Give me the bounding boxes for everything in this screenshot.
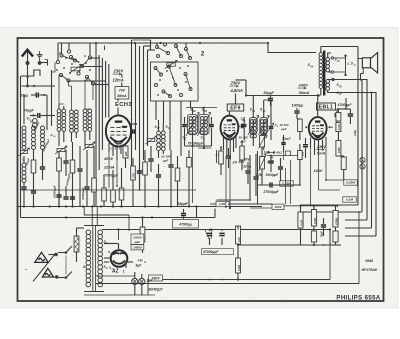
cap 27000	[258, 151, 273, 204]
wire coil cluster risers	[59, 80, 93, 110]
svg-text:110µ: 110µ	[353, 130, 357, 136]
svg-text:230V: 230V	[316, 145, 326, 149]
svg-text:59µµF: 59µµF	[178, 202, 189, 206]
wire chassis bus	[18, 205, 263, 207]
EBL1 right resistor c	[336, 141, 341, 157]
screen stub	[216, 150, 218, 163]
left capacitor C4	[40, 158, 45, 180]
osc coil pair S11 S12	[83, 109, 92, 146]
svg-text:P.U: P.U	[277, 151, 283, 155]
padding trimmer 2	[83, 142, 95, 150]
aerial coil S2	[32, 126, 36, 150]
capacitor C10	[84, 150, 89, 207]
output transformer secondary S25	[326, 53, 331, 72]
wire switch1 to bundle	[69, 58, 109, 85]
svg-text:1µF: 1µF	[264, 151, 271, 155]
osc trimmer 3	[145, 136, 157, 144]
capacitor 70pF	[24, 109, 55, 119]
trimmer on switch 2	[165, 60, 178, 68]
capacitor 47000 mid-left	[181, 209, 186, 219]
IF transformer can S20	[197, 108, 210, 148]
tube label AZ1	[112, 269, 125, 275]
wire cluster top	[284, 205, 338, 207]
label 4700uuF top	[337, 103, 353, 107]
wire avc mid	[267, 151, 302, 204]
volume pot 0.5M	[259, 147, 275, 185]
cap 50uuF	[281, 135, 285, 152]
EBL1 grid resistor upper	[297, 119, 302, 140]
svg-text:10000µµF: 10000µµF	[53, 185, 57, 198]
pickup jack P.U.	[360, 157, 365, 169]
label 47000uuF bottom	[202, 249, 234, 255]
wire ECH3 anode feed	[118, 74, 122, 116]
label 25K 3300uuF	[255, 173, 279, 177]
EF9 pins	[224, 136, 237, 160]
label +Ub	[138, 259, 147, 264]
loudspeaker LS	[362, 53, 377, 73]
resistor R27	[131, 158, 136, 207]
aerial coil S1	[19, 126, 30, 156]
svg-text:L S: L S	[348, 62, 354, 66]
svg-text:I: I	[104, 45, 106, 52]
resistor cluster R20	[298, 206, 303, 245]
band switch SK2 wafer contacts	[154, 65, 192, 98]
svg-text:27K: 27K	[132, 172, 136, 179]
svg-text:25K: 25K	[255, 173, 263, 177]
capacitor C12 pair	[63, 186, 75, 199]
svg-text:47000: 47000	[335, 217, 338, 226]
svg-text:0,1M: 0,1M	[346, 198, 353, 202]
section marker 1	[104, 45, 106, 52]
svg-text:2: 2	[201, 51, 205, 58]
resistor R fed2	[236, 258, 241, 280]
resistor far-left bottom	[140, 218, 145, 254]
IF2 tuning cap left	[241, 117, 247, 141]
cap 1uF	[269, 155, 274, 172]
capacitor C9	[77, 146, 82, 207]
output transformer primary S24	[319, 47, 323, 96]
wire top bus to transformer	[267, 42, 316, 53]
scan speckle	[20, 40, 377, 300]
phase triangle 1	[35, 252, 48, 262]
IF1 tuning cap C5	[182, 117, 187, 146]
svg-text:4,6mA: 4,6mA	[230, 88, 243, 93]
resistor R5	[57, 152, 62, 207]
label 1940	[365, 259, 374, 263]
mains transformer core	[84, 226, 104, 292]
winding labels S21 S22	[250, 108, 266, 114]
svg-text:PHILIPS 655A: PHILIPS 655A	[336, 295, 380, 301]
padding trimmer 1	[55, 146, 67, 154]
band switch SK1 wafer contacts	[56, 50, 95, 85]
wire transformer bottom bus	[84, 276, 155, 295]
resistor R22	[333, 206, 338, 245]
boxed 4500	[131, 245, 144, 250]
IF transformer can S19	[186, 107, 217, 146]
label 1uF 50	[264, 151, 274, 160]
IF transformer can S21	[248, 108, 259, 146]
osc coil pair S7 S8	[57, 104, 66, 146]
boxed 0.25M right	[344, 180, 358, 185]
boxed 180V	[149, 275, 163, 281]
label s13	[51, 133, 57, 138]
capacitor 33pF	[21, 93, 48, 98]
band switch SK2 wafer box	[151, 62, 199, 101]
wire avc vert	[283, 152, 285, 160]
boxed 0.25M	[280, 181, 294, 186]
label 110u vertical	[353, 130, 357, 136]
svg-text:1K2: 1K2	[237, 237, 241, 242]
wire HT rail	[102, 228, 331, 230]
wire mid long y190	[21, 189, 197, 191]
wire det bus	[210, 155, 251, 204]
svg-text:1000µµ: 1000µµ	[292, 104, 304, 108]
svg-text:EF9: EF9	[230, 105, 240, 111]
cap 1000uu	[294, 108, 299, 119]
left resistor R1	[31, 150, 36, 185]
output transformer core	[323, 51, 325, 96]
boxed 32000uuF	[131, 234, 144, 245]
rectifier AZ1	[111, 250, 128, 267]
svg-text:47000µµF: 47000µµF	[202, 250, 219, 254]
tube label EF9	[227, 104, 244, 111]
resistor R fed	[236, 226, 241, 258]
svg-text:0,1M: 0,1M	[338, 124, 341, 130]
IF transformer can S22	[258, 108, 269, 150]
label S3 coil	[27, 117, 38, 133]
wire HT drop right	[330, 230, 341, 246]
label 47000 slant	[65, 173, 71, 187]
resistor R21	[311, 206, 316, 226]
svg-text:75µF: 75µF	[320, 231, 324, 238]
EF9 cathode resistor	[219, 146, 224, 175]
winding labels S19 S20	[190, 108, 208, 114]
wire bundle left of ECH3	[96, 43, 109, 207]
svg-text:70µµF: 70µµF	[24, 109, 35, 113]
wire switch1 risers	[58, 43, 90, 61]
speaker lower wire	[361, 68, 364, 74]
mains switch	[58, 246, 72, 279]
cap 4700-2	[348, 109, 353, 124]
capacitor C30	[320, 218, 327, 238]
svg-text:4µF: 4µF	[135, 263, 143, 267]
cap 4700-1	[334, 109, 339, 124]
winding label S24	[308, 63, 314, 68]
wire det to right	[229, 204, 272, 208]
tube label ECH3	[115, 102, 132, 108]
label 80V 1mA	[243, 158, 251, 169]
svg-text:2: 2	[114, 147, 117, 151]
svg-text:2V: 2V	[232, 161, 238, 165]
svg-text:ECH3: ECH3	[115, 102, 132, 108]
left caps to bus	[21, 183, 36, 207]
svg-text:1: 1	[123, 270, 125, 274]
AVC caps	[245, 154, 258, 196]
label s14	[30, 120, 36, 125]
svg-text:14500: 14500	[133, 245, 142, 249]
output transformer secondary S26	[326, 80, 338, 93]
EBL1 pins	[311, 137, 327, 155]
wire output loop	[321, 47, 363, 59]
svg-text:47000µµ: 47000µµ	[178, 223, 192, 227]
earth terminal stub	[40, 60, 48, 66]
label 230V 12mA	[113, 69, 125, 83]
boxed 15M	[216, 201, 229, 206]
wire EF9 to EBL1 top	[245, 80, 247, 97]
label 163V	[314, 169, 323, 173]
cap 3300	[278, 158, 283, 185]
wire switch2 down-leads	[156, 101, 191, 156]
IF1 lower resistor	[187, 150, 192, 207]
label 1000uu	[292, 104, 304, 108]
EBL1 right resistor a	[336, 108, 341, 121]
AZ1 filament wires	[104, 258, 133, 268]
wire switch2 to bundle 2	[132, 40, 156, 50]
IF1 base wires	[185, 145, 212, 203]
svg-text:µµF: µµF	[281, 127, 287, 131]
wire EBL1 anode	[317, 94, 319, 116]
boxed 1M right	[343, 197, 357, 202]
EBL1 bias resistor	[298, 144, 303, 185]
label 400V 22mA	[103, 156, 115, 170]
AVC pot 0.1M	[259, 134, 267, 149]
tube label EBL1	[317, 103, 336, 110]
ECH3 bottom resistors	[102, 168, 124, 207]
resistor R6	[70, 142, 75, 207]
label 30-100uuF	[239, 136, 249, 165]
label 50uuF	[282, 137, 291, 141]
wire 180V link	[147, 281, 149, 295]
ballast resistor	[74, 228, 84, 262]
svg-text:1940: 1940	[365, 259, 374, 263]
svg-text:240V: 240V	[298, 83, 309, 88]
electrolytic cap 1	[132, 272, 138, 296]
svg-text:0,25M: 0,25M	[346, 181, 355, 185]
label 8uF	[147, 279, 154, 283]
wire lower antenna bus	[22, 85, 56, 87]
winding label S15	[335, 58, 341, 63]
boxed label 70V 48mA	[115, 87, 129, 100]
EBL1 right resistor b	[336, 123, 341, 141]
ECH3 pin labels	[110, 147, 121, 151]
resistor R16	[175, 156, 180, 207]
svg-text:70V: 70V	[119, 89, 126, 93]
svg-text:0,5M: 0,5M	[237, 264, 241, 271]
phase triangle 2	[42, 268, 53, 277]
antenna terminal A2	[37, 51, 43, 65]
wire mid bottom bus	[148, 278, 330, 280]
svg-text:µµF: µµF	[240, 140, 246, 144]
ECH3 side contacts	[131, 123, 138, 134]
pentode EBL1	[309, 117, 327, 139]
wire left rail	[21, 76, 25, 207]
wire transformer feed	[84, 207, 129, 232]
section marker 2	[201, 51, 205, 58]
svg-text:µµF: µµF	[134, 240, 141, 244]
label 16-500 slant	[33, 121, 40, 131]
boxed 1EW	[272, 204, 284, 209]
svg-text:3300µµF: 3300µµF	[266, 173, 280, 177]
label 240V 30mA	[298, 83, 310, 96]
svg-text:48mA: 48mA	[116, 94, 127, 98]
wire left risers	[47, 70, 52, 130]
triode-hexode ECH3	[106, 115, 131, 146]
boxed 47000uu mid-left	[173, 220, 199, 229]
osc coil pair S9 S10	[70, 110, 79, 142]
wire switch2 risers	[157, 43, 186, 48]
wire EF9 to EBL1 anode line	[246, 95, 319, 97]
mains primary winding	[86, 230, 91, 287]
label 75-100uuF	[188, 142, 205, 146]
resistor R24	[333, 231, 338, 245]
IF2 tuning cap right	[268, 119, 274, 140]
label 10-100uuF	[161, 155, 171, 163]
capacitor C15	[148, 146, 153, 172]
svg-text:12mA: 12mA	[113, 78, 124, 83]
label 230V 5mA	[316, 145, 326, 156]
resistor R23	[311, 226, 316, 245]
wire HT to cluster	[237, 244, 301, 246]
svg-text:0,5M: 0,5M	[267, 160, 274, 164]
label 47000uuF	[102, 174, 119, 178]
svg-text:1EW: 1EW	[275, 205, 283, 209]
wire cluster bottom	[301, 244, 336, 246]
wire bundle left of EF9	[132, 40, 148, 190]
wire right runs to bottom	[300, 205, 376, 236]
EBL1 cathode cap	[300, 138, 308, 158]
capacitor C17	[168, 150, 173, 207]
osc section coils S17 S18	[157, 120, 166, 158]
electrolytic cap 2	[139, 274, 145, 296]
EF9 side caps	[238, 118, 246, 128]
resistor R7	[92, 146, 97, 207]
wire antenna to coil (stepped)	[21, 70, 40, 76]
smoothing caps 47000uuF pair	[205, 230, 225, 246]
label LS2	[348, 62, 357, 67]
border frame	[18, 38, 384, 301]
mains leads	[49, 253, 59, 279]
title PHILIPS 655A	[336, 295, 380, 301]
speaker link wire	[334, 55, 347, 77]
wire right vertical runs	[332, 47, 377, 237]
svg-text:0,1M: 0,1M	[299, 219, 303, 226]
wire top bus	[58, 42, 268, 44]
aerial coil S3	[41, 126, 45, 158]
capacitor C8	[63, 150, 68, 176]
IF1 tuning cap C6	[201, 117, 214, 146]
svg-text:BO45()37: BO45()37	[149, 288, 163, 292]
wire EBL1 pin drops	[311, 146, 344, 206]
resistor R12K boxed	[123, 146, 128, 168]
secondary terminals	[331, 57, 334, 81]
EF9 bypass cap	[226, 148, 231, 168]
wire avc long	[258, 184, 301, 186]
svg-text:1,5M: 1,5M	[219, 202, 226, 206]
EBL1 right resistor d	[338, 156, 346, 180]
label C8 10-100	[275, 123, 289, 131]
EBL1 side dots	[305, 126, 333, 128]
svg-text:4700µµF: 4700µµF	[337, 103, 353, 107]
svg-text:400V: 400V	[103, 156, 113, 161]
label 10-100uuF slant	[41, 138, 51, 152]
wire ECH3 pin drops	[109, 152, 118, 188]
label 4uF	[135, 263, 143, 267]
svg-text:27000µµF: 27000µµF	[263, 190, 280, 194]
trimmer C-pad on switch 1	[69, 65, 82, 74]
capacitor C13	[137, 160, 142, 186]
label B045	[149, 288, 163, 292]
PU terminals	[267, 151, 290, 156]
diode load resistor	[240, 140, 244, 170]
wire 4700 tops	[337, 98, 350, 110]
svg-text:L: L	[119, 147, 121, 151]
svg-text:180V: 180V	[151, 276, 160, 280]
svg-text:AZ: AZ	[112, 269, 119, 275]
wire EF9 pin drops	[225, 156, 231, 209]
label 47000 vertical	[81, 187, 85, 201]
label 230V 4.6mA	[230, 81, 243, 94]
switch1 extra contacts	[59, 52, 86, 75]
capacitor C11	[56, 192, 61, 207]
AZ1 cathode to HT	[118, 230, 120, 241]
svg-text:HF1784/6: HF1784/6	[362, 268, 377, 272]
label 59uuF	[178, 202, 189, 206]
wire bus C	[21, 207, 216, 219]
svg-text:µµF: µµF	[162, 159, 168, 163]
capacitor 82pF	[264, 91, 275, 106]
wire switch1 to coils	[52, 62, 94, 90]
wire lower bus 283	[96, 211, 360, 283]
label 2V	[232, 161, 238, 165]
band switch SK2 upper contacts	[156, 43, 192, 60]
svg-text:82µµF: 82µµF	[264, 91, 275, 95]
label 27000uuF	[263, 190, 280, 194]
S labels AZ1	[108, 250, 113, 271]
wire EF9 anode	[229, 80, 246, 116]
ECH3 pins	[109, 143, 125, 160]
svg-text:75-100µµF: 75-100µµF	[188, 142, 205, 146]
svg-text:EBL1: EBL1	[319, 104, 333, 110]
winding labels S26 S27	[337, 83, 343, 96]
wire bus vertical link	[329, 245, 331, 280]
winding labels	[83, 240, 108, 270]
svg-text:230V: 230V	[230, 81, 242, 86]
IF2 riser	[253, 96, 271, 120]
svg-text:1000: 1000	[338, 147, 341, 153]
svg-text:230V: 230V	[113, 69, 125, 74]
svg-text:+U: +U	[138, 259, 143, 263]
pentode EF9	[221, 116, 239, 140]
phase diagonal line	[25, 254, 56, 282]
antenna A1 symbol	[22, 50, 33, 88]
svg-text:30mA: 30mA	[299, 90, 310, 95]
label HF1784	[362, 268, 377, 272]
svg-text:0,5M: 0,5M	[313, 217, 317, 224]
capacitor C16	[156, 164, 161, 207]
mains secondary winding	[98, 230, 103, 287]
svg-text:32000: 32000	[133, 236, 142, 240]
wire 240V feed	[297, 94, 320, 96]
AZ1 anode wires	[104, 244, 119, 250]
svg-text:b: b	[145, 260, 147, 264]
left coil lower S5	[22, 156, 26, 183]
label 10000 vertical	[53, 185, 57, 198]
svg-text:24: 24	[309, 65, 313, 68]
resistor R15	[143, 150, 148, 207]
label C4 30uuF	[21, 157, 31, 166]
svg-text:47000µµF: 47000µµF	[81, 187, 85, 201]
winding labels S17 S18	[155, 125, 172, 130]
